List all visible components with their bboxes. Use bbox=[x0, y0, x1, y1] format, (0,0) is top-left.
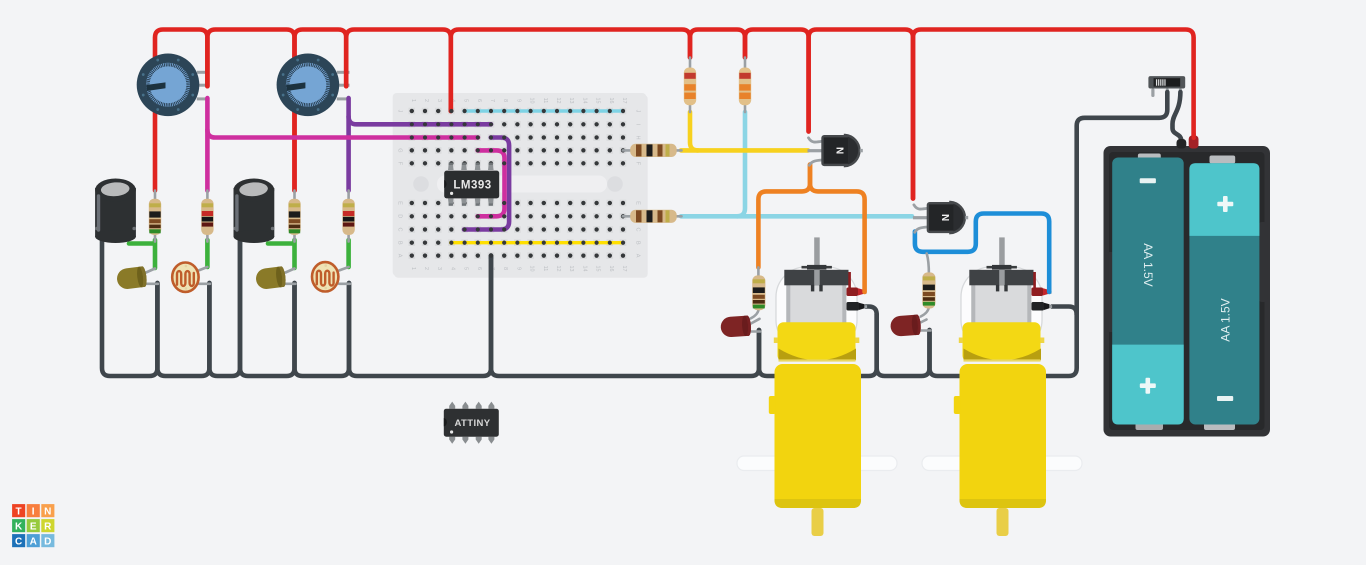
wire: red power bus R5 to R6 bbox=[690, 30, 745, 58]
wire: green R3 to PT2 bbox=[292, 240, 297, 268]
motor M1 wheel bbox=[737, 456, 897, 471]
resistor R1 bbox=[149, 191, 161, 242]
resistor R4 bbox=[342, 191, 354, 242]
lead PT1 bottom bbox=[146, 282, 158, 285]
svg-text:K: K bbox=[15, 522, 23, 533]
wire: red power bus breadboard to R5 bbox=[451, 30, 690, 112]
wire: purple POT2 wiper down to R4 bbox=[346, 98, 351, 190]
resistor R9 bbox=[623, 144, 682, 157]
svg-text:A: A bbox=[635, 254, 641, 258]
svg-text:16: 16 bbox=[608, 266, 614, 272]
wire: red power bus Q1 to Q2 bbox=[809, 30, 913, 199]
wire: red power bus Q2 to battery plus bbox=[913, 30, 1194, 199]
svg-text:E: E bbox=[635, 201, 641, 205]
svg-text:13: 13 bbox=[568, 98, 574, 104]
svg-text:E: E bbox=[397, 201, 403, 205]
lead PT1 top bbox=[146, 269, 155, 273]
svg-text:F: F bbox=[635, 162, 641, 166]
svg-text:8: 8 bbox=[502, 267, 508, 270]
wire: switch right leg to battery minus nub bbox=[1173, 92, 1182, 140]
svg-text:9: 9 bbox=[515, 99, 521, 102]
wire: magenta jumper G6 to D6 on breadboard bbox=[478, 150, 505, 216]
wire: yellow comparator output to Q1 base bbox=[681, 148, 808, 153]
svg-text:AA 1.5V: AA 1.5V bbox=[1218, 298, 1232, 341]
svg-text:12: 12 bbox=[555, 266, 561, 272]
svg-text:N: N bbox=[939, 214, 950, 221]
LED D1 bbox=[720, 315, 760, 337]
motor M1 bbox=[769, 237, 867, 536]
resistor R7 bbox=[751, 267, 766, 318]
svg-text:3: 3 bbox=[436, 267, 442, 270]
svg-text:N: N bbox=[44, 507, 51, 518]
wire: green R2 to LDR1 bbox=[205, 240, 210, 267]
svg-text:AA 1.5V: AA 1.5V bbox=[1141, 243, 1155, 286]
battery pack BT1 bbox=[1104, 132, 1271, 437]
wire: purple branch to breadboard I7 bbox=[349, 117, 491, 125]
wire: yellow jumper B4 to B17 bbox=[451, 241, 623, 244]
wire: green R1 to PT1 bbox=[153, 240, 158, 268]
capacitor C1 bbox=[95, 179, 136, 244]
svg-text:1: 1 bbox=[410, 267, 416, 270]
IC U2 ATTINY bbox=[444, 402, 499, 444]
svg-text:14: 14 bbox=[581, 266, 587, 272]
svg-text:1: 1 bbox=[410, 99, 416, 102]
svg-text:C: C bbox=[397, 227, 403, 231]
svg-text:6: 6 bbox=[476, 99, 482, 102]
svg-text:B: B bbox=[397, 241, 403, 245]
svg-text:D: D bbox=[44, 537, 51, 548]
svg-text:14: 14 bbox=[581, 98, 587, 104]
svg-text:10: 10 bbox=[529, 266, 535, 272]
svg-text:J: J bbox=[635, 110, 641, 113]
wire: yellow from R5 down bbox=[690, 112, 698, 150]
svg-text:6: 6 bbox=[476, 267, 482, 270]
svg-text:12: 12 bbox=[555, 98, 561, 104]
tinkercad logo bbox=[12, 504, 54, 547]
svg-text:10: 10 bbox=[529, 98, 535, 104]
svg-text:11: 11 bbox=[542, 98, 548, 104]
wire: red power bus R1 to POT1 bbox=[155, 30, 207, 191]
wire: ground bus PT1 to LDR1 bbox=[157, 283, 209, 376]
wire: magenta branch to breadboard H6 bbox=[207, 130, 478, 138]
wire: red power bus POT2 to breadboard J4 bbox=[346, 30, 451, 112]
lead LDR1 bottom bbox=[199, 282, 211, 285]
resistor R6 bbox=[739, 58, 751, 113]
svg-text:15: 15 bbox=[595, 266, 601, 272]
svg-text:9: 9 bbox=[515, 267, 521, 270]
resistor R8 bbox=[921, 254, 936, 317]
svg-text:2: 2 bbox=[423, 267, 429, 270]
svg-text:13: 13 bbox=[568, 266, 574, 272]
potentiometer POT2 pins bbox=[337, 71, 350, 101]
resistor R3 bbox=[288, 191, 300, 242]
wire: green C2 to R3 node bbox=[268, 241, 293, 246]
wire: green R4 to LDR2 bbox=[346, 240, 351, 267]
wire: red power bus POT1 to R3 bbox=[207, 30, 294, 191]
wire: green C1 to R1 node bbox=[129, 241, 153, 246]
breadboard hole overlay bbox=[410, 109, 625, 258]
wire: ground bus LED2 to battery minus riser bbox=[930, 315, 1077, 377]
svg-text:17: 17 bbox=[621, 98, 627, 104]
svg-text:A: A bbox=[397, 254, 403, 258]
wire: ground bus breadboard to LED1 bbox=[491, 256, 759, 376]
svg-text:T: T bbox=[16, 507, 22, 518]
wire: cyan jumper J5 to J17 bbox=[464, 109, 623, 112]
svg-text:4: 4 bbox=[449, 267, 455, 270]
lead PT2 top bbox=[286, 269, 295, 273]
motor M2 bbox=[954, 237, 1052, 536]
photoresistor LDR1 bbox=[172, 263, 198, 292]
svg-text:J: J bbox=[397, 110, 403, 113]
svg-text:16: 16 bbox=[608, 98, 614, 104]
wire: blue Q2 emitter loop to M2 plus bbox=[915, 214, 1049, 293]
switch S1 legs bbox=[1151, 89, 1182, 98]
svg-text:17: 17 bbox=[621, 266, 627, 272]
wire: ground bus C2 to PT2 bbox=[240, 240, 295, 376]
lead PT2 bottom bbox=[286, 282, 296, 285]
lead LDR2 top bbox=[339, 267, 349, 271]
svg-text:2: 2 bbox=[423, 99, 429, 102]
svg-text:B: B bbox=[635, 241, 641, 245]
wire: ground bus LED1 to motor M1 minus bbox=[759, 315, 877, 377]
transistor Q1 bbox=[808, 135, 863, 166]
potentiometer POT1 bbox=[137, 54, 200, 117]
phototransistor PT2 bbox=[255, 266, 287, 290]
resistor R10 bbox=[623, 210, 682, 223]
svg-text:D: D bbox=[397, 214, 403, 218]
lead LDR2 bottom bbox=[339, 282, 350, 285]
op-amp U1 LM393 bbox=[444, 163, 499, 206]
svg-text:LM393: LM393 bbox=[453, 180, 491, 192]
svg-text:C: C bbox=[15, 537, 22, 548]
svg-text:5: 5 bbox=[463, 267, 469, 270]
LED D2 bbox=[890, 314, 931, 336]
phototransistor PT1 bbox=[116, 266, 148, 290]
svg-text:G: G bbox=[397, 148, 403, 152]
wire: orange Q1 emitter fork left to R7 bbox=[758, 165, 810, 268]
wire: battery minus to switch middle leg bbox=[1077, 92, 1168, 315]
svg-text:15: 15 bbox=[595, 98, 601, 104]
slide switch S1 bbox=[1148, 76, 1185, 88]
svg-text:ATTINY: ATTINY bbox=[455, 418, 491, 429]
wire: ground bus LDR2 to breadboard A7 bbox=[349, 256, 491, 376]
svg-text:H: H bbox=[635, 135, 641, 139]
transistor Q2 bbox=[913, 202, 968, 233]
svg-text:7: 7 bbox=[489, 99, 495, 102]
potentiometer POT1 pins bbox=[197, 71, 210, 101]
svg-text:E: E bbox=[30, 522, 37, 533]
svg-text:5: 5 bbox=[463, 99, 469, 102]
wire: ground bus M1 to LED2 bbox=[877, 315, 930, 377]
wire: red power bus R3 to POT2 bbox=[295, 30, 347, 191]
svg-text:8: 8 bbox=[502, 99, 508, 102]
wire: cyan comparator output to Q2 base bbox=[681, 214, 912, 219]
wire: purple jumper H7 to C5 on breadboard bbox=[464, 138, 509, 230]
lead LDR1 top bbox=[199, 267, 208, 271]
capacitor C2 bbox=[233, 179, 274, 244]
wire: ground bus LDR1 to C2 bbox=[209, 240, 240, 376]
wire: motor M1 minus terminal stub bbox=[866, 307, 877, 315]
wire: cyan from R6 down bbox=[737, 112, 745, 216]
svg-text:F: F bbox=[397, 162, 403, 166]
wire: magenta POT1 wiper down to R2 bbox=[205, 98, 210, 190]
wire: red power bus R6 to Q1 bbox=[745, 30, 809, 132]
breadboard bbox=[393, 93, 648, 278]
potentiometer POT2 bbox=[277, 54, 340, 117]
svg-text:R: R bbox=[44, 522, 52, 533]
svg-text:3: 3 bbox=[436, 99, 442, 102]
wire: ground bus PT2 to LDR2 bbox=[295, 283, 350, 376]
svg-text:I: I bbox=[32, 507, 35, 518]
svg-text:N: N bbox=[834, 147, 845, 154]
svg-text:11: 11 bbox=[542, 266, 548, 272]
resistor R2 bbox=[201, 191, 213, 242]
svg-text:C: C bbox=[635, 227, 641, 231]
wire: orange Q1 emitter fork right to M1 plus bbox=[810, 165, 865, 293]
photoresistor LDR2 bbox=[312, 262, 338, 291]
resistor R5 bbox=[684, 58, 696, 113]
wire: ground bus C1 to PT1 bbox=[102, 240, 157, 376]
svg-text:A: A bbox=[30, 537, 37, 548]
motor M2 wheel bbox=[922, 456, 1082, 471]
wire: motor M2 minus terminal stub bbox=[1052, 307, 1077, 315]
